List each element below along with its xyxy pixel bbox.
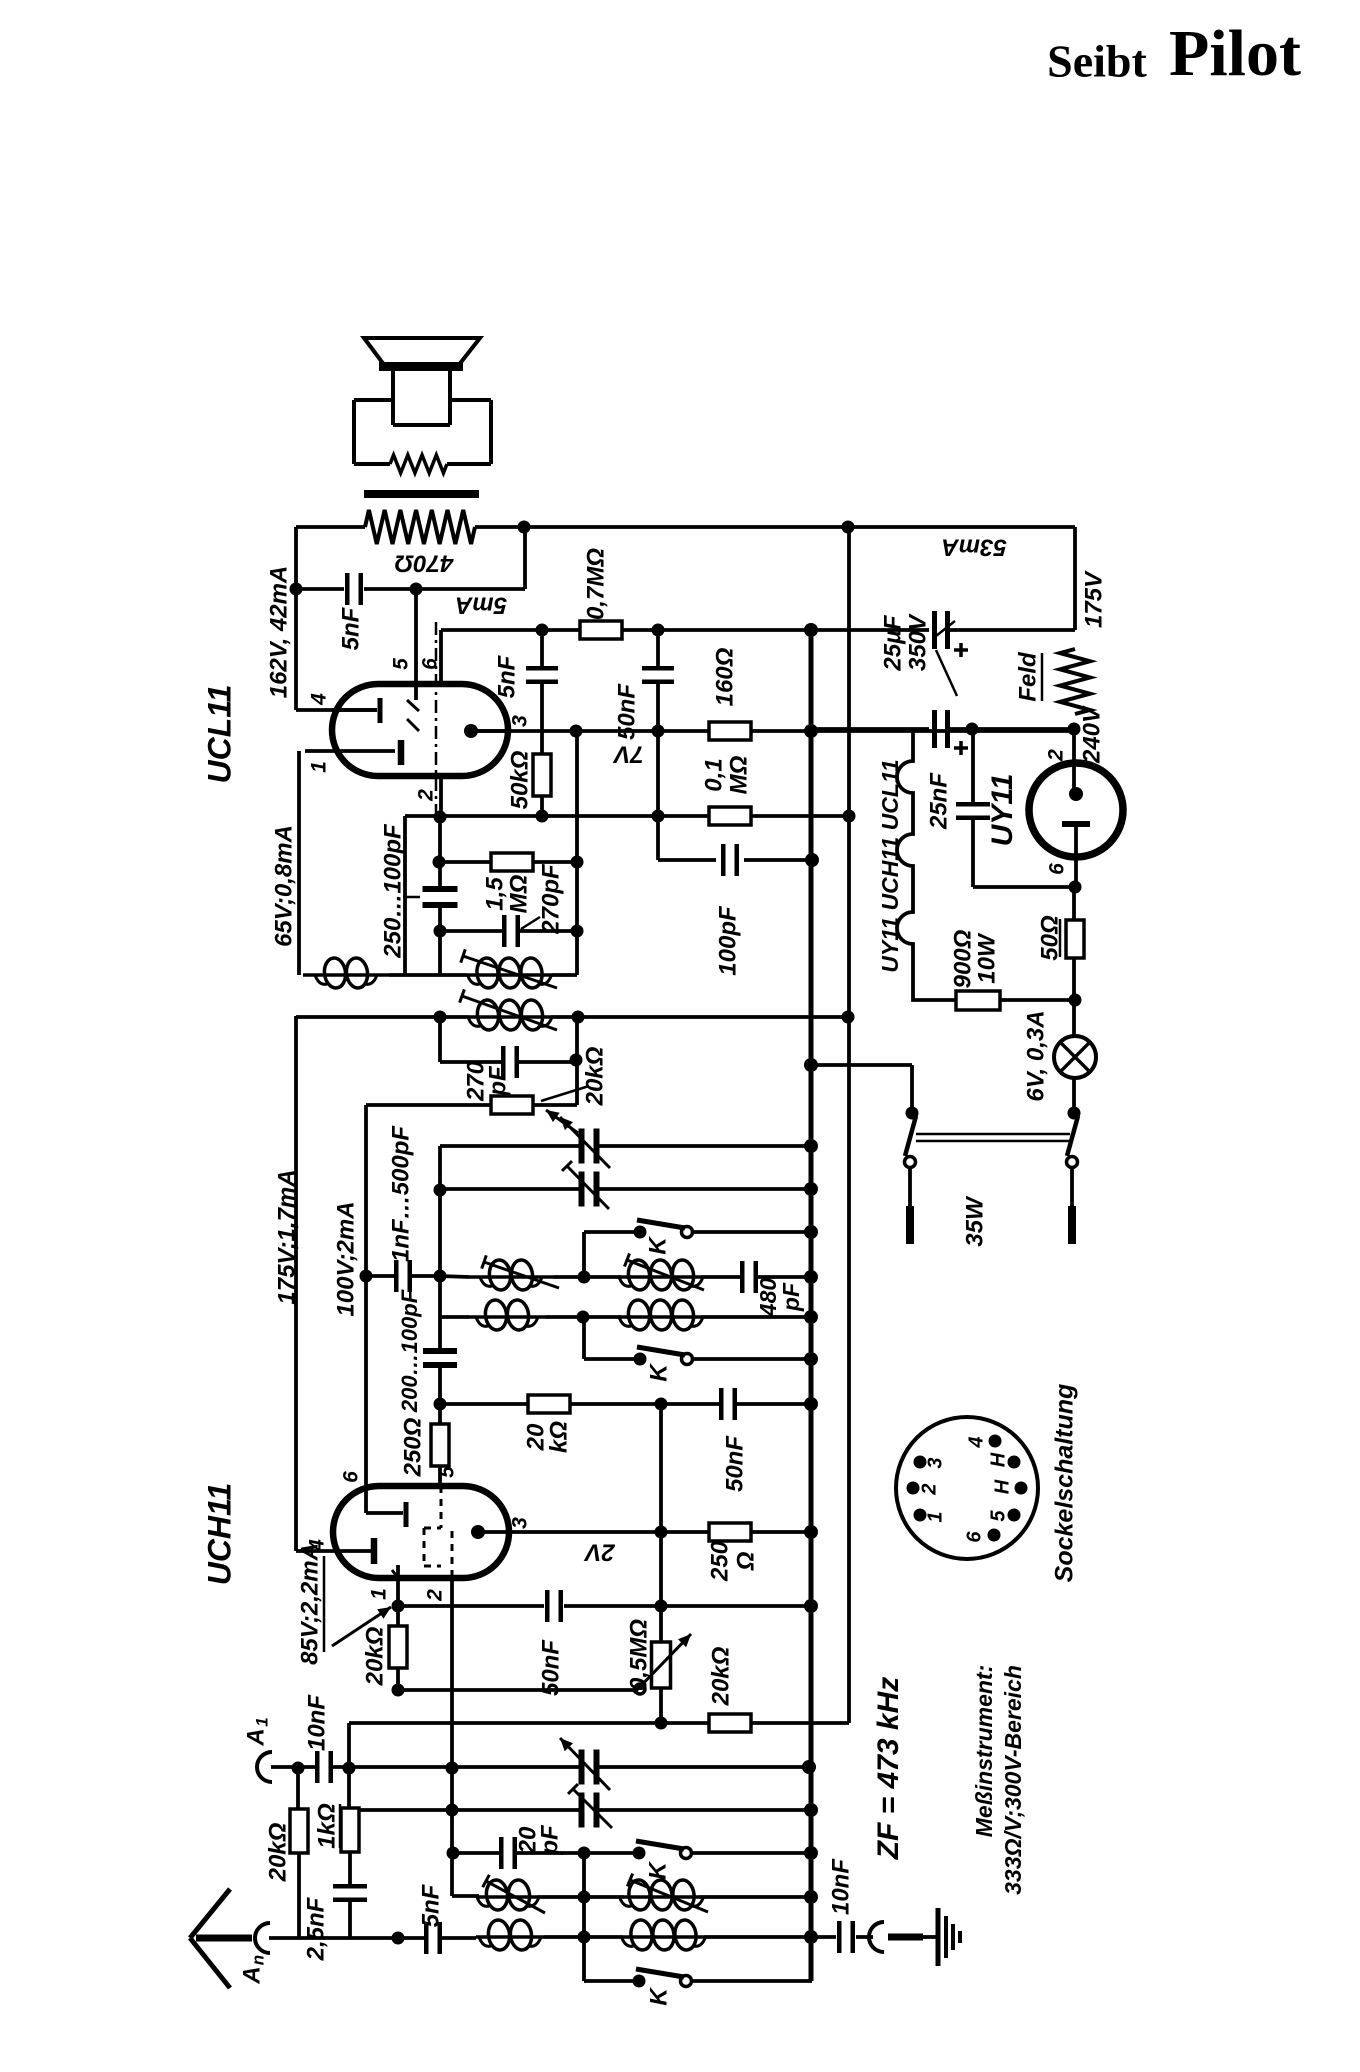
svg-text:6: 6 [340, 1471, 363, 1483]
wire anode row y=1532 [509, 1530, 709, 1534]
resistor 50 Ohm [1072, 887, 1076, 920]
node [804, 1270, 818, 1284]
UY11 anode wire pin 2 [1072, 729, 1076, 789]
node [1068, 723, 1081, 736]
UCL11 system separator dash-dot [435, 622, 438, 822]
node [446, 1762, 459, 1775]
UCH11 anode node pin 3 [471, 1525, 485, 1539]
node [410, 583, 423, 596]
svg-text:UY11 UCH11 UCL11: UY11 UCH11 UCL11 [877, 759, 903, 972]
node [652, 624, 665, 637]
svg-text:1: 1 [252, 1717, 271, 1726]
socket pin 3 [914, 1456, 927, 1469]
node [804, 1397, 818, 1411]
coil (feedback winding) [303, 973, 389, 977]
capacitor 100pF [721, 844, 726, 876]
svg-text:20kΩ: 20kΩ [361, 1626, 388, 1686]
svg-text:85V;2,2mA: 85V;2,2mA [296, 1543, 323, 1665]
UCH11 pin 6 lead and triode grid [364, 1486, 368, 1513]
wire B+ corner to 175V rail [1073, 527, 1077, 630]
svg-text:25nF: 25nF [925, 772, 952, 830]
svg-text:5nF: 5nF [417, 1883, 444, 1927]
UCH11 hexode grids dashed [440, 1486, 443, 1528]
wire x=440 to 270pF row [438, 1017, 442, 1062]
svg-text:Sockelschaltung: Sockelschaltung [1051, 1384, 1079, 1583]
phone jack [869, 1922, 884, 1952]
switch K row 1853 [633, 1847, 646, 1860]
svg-text:Ω: Ω [732, 1551, 759, 1571]
loudspeaker magnet [391, 371, 395, 425]
node junction bus B top [842, 521, 855, 534]
socket pin 2 [907, 1482, 920, 1495]
svg-text:250…100pF: 250…100pF [379, 823, 406, 959]
socket pin 6 [988, 1529, 1001, 1542]
tube UY11 [1029, 763, 1123, 857]
loudspeaker bar [379, 362, 463, 371]
UCL11 cathode [398, 740, 405, 765]
node [447, 1847, 460, 1860]
svg-text:10nF: 10nF [827, 1858, 854, 1915]
node [804, 1930, 818, 1944]
pointer line [521, 917, 540, 929]
resistor 20kOhm AVC [709, 1714, 751, 1732]
node [804, 1352, 818, 1366]
antenna A1 terminal [257, 1752, 272, 1782]
svg-text:pF: pF [484, 1065, 511, 1097]
svg-text:5: 5 [390, 658, 413, 670]
resistor 0.1 MOhm [709, 807, 751, 825]
field coil Feld [1060, 649, 1090, 714]
node [804, 1058, 818, 1072]
left rail 175V [294, 1016, 298, 1551]
svg-text:2: 2 [415, 789, 438, 802]
node [652, 810, 665, 823]
capacitor 5nF antenna [398, 1936, 424, 1940]
capacitor 20pF [499, 1837, 504, 1869]
resistor 20kOhm grid [396, 1606, 400, 1626]
socket pin 4 [989, 1435, 1002, 1448]
pointer lines [936, 621, 955, 636]
svg-text:250: 250 [706, 1540, 733, 1582]
electrolytic 25uF #1 [932, 611, 937, 649]
node [805, 853, 819, 867]
svg-text:UCH11: UCH11 [201, 1483, 237, 1586]
UCL11 pin 6 wire [439, 630, 443, 684]
node [1069, 881, 1082, 894]
node [578, 1891, 591, 1904]
node [434, 1011, 447, 1024]
UCL11 triode grid [378, 698, 383, 723]
pointer line [403, 896, 420, 899]
svg-text:K: K [644, 1236, 671, 1255]
UCH11 pin2 wire down [450, 1578, 454, 1896]
socket pin H a [1008, 1456, 1021, 1469]
svg-text:H: H [987, 1452, 1009, 1467]
node [966, 723, 979, 736]
svg-text:10W: 10W [973, 932, 1000, 984]
trimmer capacitor 250...100pF [423, 886, 458, 892]
svg-text:MΩ: MΩ [505, 874, 532, 913]
svg-text:1: 1 [308, 761, 331, 773]
node [804, 1182, 818, 1196]
IF2 secondary tuning arrow [462, 996, 557, 1030]
resistor 250 Ohm cathode [438, 1404, 442, 1424]
electrolytic 25uF #2 [811, 727, 929, 731]
node [571, 925, 584, 938]
padder capacitor 1nF..500pF row 1277 [366, 1274, 396, 1278]
node [804, 1310, 818, 1324]
socket pin H b [1015, 1482, 1028, 1495]
wire row y=1937 coils [476, 1935, 544, 1939]
svg-text:35W: 35W [961, 1195, 988, 1247]
svg-text:20kΩ: 20kΩ [264, 1822, 291, 1882]
UCL11 pin 2 wire [439, 776, 443, 816]
svg-text:1: 1 [924, 1511, 946, 1522]
node [433, 856, 446, 869]
svg-text:Meßinstrument:: Meßinstrument: [971, 1665, 997, 1838]
svg-text:4: 4 [308, 693, 331, 706]
svg-text:900Ω: 900Ω [949, 929, 976, 988]
node [655, 1717, 668, 1730]
resistor 20 kOhm [528, 1395, 570, 1413]
node [578, 1847, 591, 1860]
UCL11 anode node pin 3 [464, 724, 478, 738]
trimmer capacitor 200...100pF [438, 1317, 442, 1352]
wire row y=1938 left [269, 1936, 398, 1940]
node [804, 724, 818, 738]
loudspeaker cone [364, 338, 480, 366]
node bus A top [804, 623, 818, 637]
potentiometer 20 kOhm [491, 1096, 533, 1114]
svg-text:3: 3 [924, 1457, 946, 1468]
resistor 250 Ohm anode [709, 1523, 751, 1541]
node [804, 1225, 818, 1239]
svg-text:K: K [644, 1861, 671, 1880]
heater chain [897, 729, 956, 1000]
UCH11 cathode [371, 1538, 378, 1564]
node [655, 1526, 668, 1539]
svg-text:H: H [991, 1479, 1013, 1494]
svg-text:kΩ: kΩ [545, 1421, 572, 1453]
wire row y=1853 padding [452, 1851, 499, 1855]
node [360, 1270, 373, 1283]
svg-text:100pF: 100pF [714, 905, 741, 976]
svg-text:Pilot: Pilot [1169, 17, 1301, 90]
capacitor 270pF detector [501, 1046, 506, 1078]
svg-text:K: K [645, 1363, 672, 1382]
trimmer capacitor antenna [579, 1793, 585, 1828]
capacitor 5nF (anode) [345, 573, 350, 605]
svg-text:1kΩ: 1kΩ [313, 1803, 340, 1849]
svg-text:4: 4 [965, 1436, 987, 1448]
UCL11 pin 5 wire and grid dashes [414, 589, 418, 700]
node [446, 1804, 459, 1817]
wire x=661 link [659, 1404, 663, 1532]
node [392, 1600, 405, 1613]
node [577, 1311, 590, 1324]
wire UCL11 anode to IF2 primary [575, 731, 579, 931]
svg-text:7V: 7V [612, 741, 643, 768]
node [655, 1600, 668, 1613]
wire row y=731 (7V cathode row) [471, 729, 709, 733]
node [292, 1762, 305, 1775]
pot wiper arrow [546, 1110, 578, 1133]
capacitor 50nF [656, 630, 660, 666]
svg-text:10nF: 10nF [303, 1694, 330, 1751]
wire row y=1404 [440, 1402, 719, 1406]
wire left rail to UCL11 pin 4 [294, 527, 298, 710]
coil arrows [486, 1881, 545, 1913]
svg-text:250Ω: 250Ω [399, 1417, 426, 1477]
mains switch right [1068, 1107, 1081, 1120]
node [434, 1184, 447, 1197]
wire row y=1810 trimmer [349, 1808, 580, 1812]
svg-text:6: 6 [419, 658, 442, 670]
switch linkage [916, 1133, 1070, 1136]
svg-text:0,5MΩ: 0,5MΩ [625, 1619, 652, 1691]
node [570, 725, 583, 738]
svg-text:A: A [238, 1966, 265, 1984]
svg-text:MΩ: MΩ [725, 755, 752, 794]
capacitor 2,5nF [348, 1852, 352, 1886]
node [804, 1599, 818, 1613]
wire AVC row y=1723 [349, 1721, 709, 1725]
node [434, 1270, 447, 1283]
svg-text:6: 6 [1046, 863, 1069, 875]
wire row y=589 with 5nF [296, 587, 344, 591]
resistor 50 kOhm [533, 754, 551, 796]
wire row y=1317 oscillator secondary [440, 1315, 469, 1319]
wire row y=1897 coils [452, 1894, 479, 1898]
capacitor 25nF [971, 729, 975, 802]
svg-text:6V, 0,3A: 6V, 0,3A [1022, 1010, 1049, 1101]
wire row y=1062 with 270pF [440, 1060, 503, 1064]
node [392, 1932, 405, 1945]
bus A main [809, 630, 814, 1981]
node [536, 624, 549, 637]
svg-text:2: 2 [918, 1483, 940, 1495]
node [578, 1931, 591, 1944]
capacitor 5nF (screen) [540, 630, 544, 666]
bus B AVC line [847, 527, 851, 1723]
node [843, 810, 856, 823]
node [446, 1762, 459, 1775]
wire row y=1606 with 50nF [398, 1604, 544, 1608]
svg-text:1: 1 [368, 1588, 391, 1600]
resistor 20kOhm antenna leak [296, 1768, 300, 1809]
node [1069, 994, 1082, 1007]
node [804, 1139, 818, 1153]
svg-text:3: 3 [509, 1517, 532, 1529]
capacitor 10nF [315, 1751, 320, 1783]
svg-text:333Ω/V;300V-Bereich: 333Ω/V;300V-Bereich [1000, 1665, 1026, 1895]
svg-text:2,5nF: 2,5nF [302, 1896, 329, 1961]
node [804, 1890, 818, 1904]
wire x=366 long down to UCH11 pin 6 [364, 1105, 368, 1486]
wire x=440 trimmer chain [438, 817, 442, 890]
svg-text:5mA: 5mA [455, 592, 507, 619]
svg-text:1,5: 1,5 [481, 877, 508, 911]
svg-text:K: K [645, 1987, 672, 2006]
node [804, 1803, 818, 1817]
svg-text:350V: 350V [904, 613, 931, 671]
wire row y=1690 to pot wiper [398, 1688, 634, 1692]
potentiometer 0,5MOhm wiper terminal [635, 1684, 645, 1694]
svg-text:270pF: 270pF [537, 863, 564, 935]
svg-text:65V;0,8mA: 65V;0,8mA [270, 825, 297, 947]
node [802, 1760, 816, 1774]
oscillator coil row y=1277 [469, 1275, 553, 1279]
wire x=577 down [575, 1017, 579, 1105]
wire row y=1146 tuning cap 1 [440, 1144, 580, 1148]
node bus B [842, 1011, 855, 1024]
IF2 primary tuning arrow [463, 956, 557, 988]
resistor 1,5 MOhm [491, 853, 533, 871]
wire x=584 chain [582, 1853, 586, 1937]
svg-text:5nF: 5nF [493, 654, 520, 698]
wire x=349 up to AVC [347, 1723, 351, 1768]
svg-text:175V;1,7mA: 175V;1,7mA [273, 1169, 300, 1304]
switch K row 1981 [582, 1937, 586, 1981]
loudspeaker frame with voice coil resistor [354, 398, 392, 402]
wire bus A to left switch [811, 1063, 912, 1067]
wire x=440 [438, 1146, 442, 1317]
IF2 secondary coil row y=1017 [296, 1015, 469, 1019]
resistor 1kOhm [341, 1808, 359, 1852]
svg-text:2V: 2V [583, 1539, 615, 1566]
svg-text:n: n [248, 1955, 267, 1965]
UCH11 pin 1 wire [396, 1565, 400, 1606]
svg-text:3: 3 [509, 715, 532, 727]
node [578, 1271, 591, 1284]
svg-text:25µF: 25µF [879, 614, 906, 672]
svg-text:pF: pF [536, 1824, 563, 1856]
svg-text:100V;2mA: 100V;2mA [332, 1201, 359, 1316]
capacitor 480pF [740, 1261, 745, 1293]
socket pin 1 [914, 1509, 927, 1522]
svg-text:162V, 42mA: 162V, 42mA [265, 566, 292, 699]
node [392, 1684, 405, 1697]
node [804, 1525, 818, 1539]
resistor 470 Ohm (output transformer primary) [365, 510, 475, 544]
switch K band row 1232 [584, 1230, 636, 1234]
node [655, 1398, 668, 1411]
tube UCH11 envelope [333, 1486, 509, 1578]
pointer arrow [332, 1607, 391, 1646]
node [434, 925, 447, 938]
svg-text:50kΩ: 50kΩ [506, 750, 533, 809]
resistor 0.7 MOhm [580, 621, 622, 639]
UY11 cathode [1062, 821, 1090, 827]
wire top B+ row y=527 [296, 525, 365, 529]
svg-text:470Ω: 470Ω [394, 550, 454, 577]
svg-text:200…100pF: 200…100pF [397, 1289, 422, 1413]
svg-text:160Ω: 160Ω [711, 647, 738, 706]
oscillator coil arrows [484, 1262, 559, 1288]
node junction 470R/5nF [518, 521, 531, 534]
svg-text:5nF: 5nF [337, 606, 364, 650]
svg-text:5: 5 [987, 1510, 1009, 1522]
capacitor 10nF output [837, 1921, 842, 1953]
mains switch left [906, 1107, 919, 1120]
svg-text:50nF: 50nF [613, 683, 640, 740]
svg-text:UY11: UY11 [986, 774, 1019, 847]
svg-text:A: A [242, 1728, 269, 1746]
ground [936, 1908, 941, 1966]
wire row y=862 with 1.5MOhm [440, 860, 491, 864]
node [434, 1398, 447, 1411]
svg-text:ZF = 473 kHz: ZF = 473 kHz [872, 1677, 905, 1861]
node [570, 1054, 583, 1067]
svg-text:53mA: 53mA [941, 534, 1006, 561]
switch K band row 1359 [582, 1317, 586, 1359]
svg-text:6: 6 [963, 1531, 985, 1543]
svg-text:2: 2 [424, 1589, 447, 1602]
resistor 900 Ohm 10W [956, 991, 1000, 1010]
pilot lamp 6V 0,3A [1072, 1000, 1076, 1036]
wire pin1 down-left [297, 751, 301, 975]
svg-text:50nF: 50nF [537, 1639, 564, 1696]
node [652, 725, 665, 738]
potentiometer 0,5MOhm [659, 1606, 663, 1642]
wire row y=931 with 270pF [440, 929, 504, 933]
output transformer core [364, 490, 479, 498]
node [290, 583, 303, 596]
svg-text:0,1: 0,1 [700, 758, 727, 791]
trimmer capacitor 2 [579, 1172, 585, 1207]
wire row y=887 to 25nF [973, 885, 1074, 889]
svg-text:1nF…500pF: 1nF…500pF [387, 1125, 414, 1262]
node [571, 856, 584, 869]
node [804, 1846, 818, 1860]
wire row y=1105 volume pot [366, 1103, 491, 1107]
variable capacitor (tuning) 1 [579, 1129, 585, 1164]
capacitor 50nF [545, 1590, 550, 1622]
tube UCL11 envelope [332, 684, 508, 776]
svg-text:175V: 175V [1080, 570, 1107, 628]
resistor 160 Ohm [709, 722, 751, 740]
socket circle Sockelschaltung [896, 1417, 1038, 1559]
svg-text:5: 5 [436, 1466, 459, 1478]
svg-text:pF: pF [778, 1282, 804, 1312]
variable capacitor (tuning) antenna [579, 1750, 585, 1785]
node [434, 811, 447, 824]
wire row y=860 with 100pF [658, 858, 716, 862]
svg-text:20kΩ: 20kΩ [581, 1046, 608, 1106]
svg-text:0,7MΩ: 0,7MΩ [582, 548, 609, 620]
capacitor 50nF [719, 1388, 724, 1420]
node [572, 1011, 585, 1024]
IF2 primary coil [575, 931, 579, 975]
wire lamp to switch [1072, 1078, 1076, 1113]
svg-text:240V: 240V [1078, 705, 1105, 764]
wire x=658 down to grid row [656, 731, 660, 860]
svg-text:2: 2 [1045, 749, 1068, 762]
wire row y=1768 [271, 1765, 317, 1769]
svg-text:Seibt: Seibt [1047, 36, 1147, 87]
wire x=349 down to 1kOhm [347, 1768, 351, 1808]
pointer line [541, 1086, 589, 1101]
socket pin 5 [1008, 1509, 1021, 1522]
node [343, 1762, 356, 1775]
capacitor 1nF...500pF [440, 1276, 469, 1277]
svg-text:50nF: 50nF [721, 1435, 748, 1492]
svg-text:20kΩ: 20kΩ [707, 1646, 734, 1706]
svg-text:UCL11: UCL11 [201, 685, 237, 784]
svg-text:Feld: Feld [1014, 651, 1041, 702]
wire row y=1189 trimmer cap [440, 1187, 580, 1191]
node [536, 810, 549, 823]
